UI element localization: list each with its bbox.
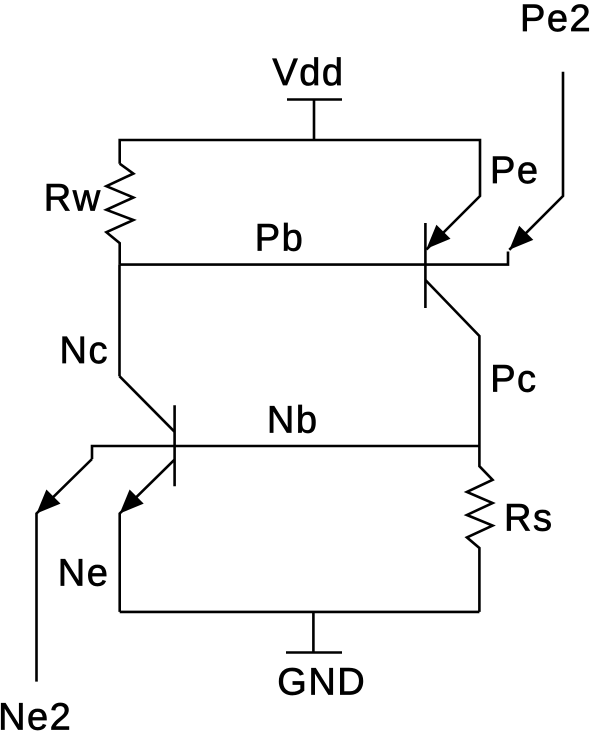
transistor NPN base bar — [173, 405, 176, 486]
svg-text:Rw: Rw — [44, 178, 102, 220]
wire Nc — [118, 265, 121, 377]
svg-text:Nc: Nc — [60, 330, 109, 372]
power symbol Vdd — [287, 100, 342, 141]
svg-text:GND: GND — [277, 662, 366, 704]
svg-text:Ne2: Ne2 — [0, 697, 72, 734]
svg-text:Pe: Pe — [490, 150, 539, 192]
wire node Nb horizontal — [92, 446, 479, 459]
transistor NPN emitter diagonal (Ne) — [120, 460, 175, 612]
wire GND rail — [120, 611, 480, 614]
wire top Vdd rail — [120, 140, 480, 250]
svg-text:Pb: Pb — [255, 218, 304, 260]
svg-text:Pe2: Pe2 — [520, 0, 590, 40]
PNP emitter 2 arrowhead (Pe2) — [509, 226, 533, 250]
NPN emitter 1 arrowhead (Ne) — [120, 490, 144, 514]
transistor NPN collector diagonal — [120, 376, 175, 432]
svg-text:Pc: Pc — [490, 359, 537, 401]
wire Ne2 diagonal — [37, 459, 93, 682]
svg-text:Nb: Nb — [267, 399, 319, 441]
svg-text:Vdd: Vdd — [272, 52, 344, 94]
transistor PNP base bar — [424, 223, 427, 308]
svg-text:Ne: Ne — [58, 552, 110, 594]
resistor Rw — [106, 164, 133, 265]
transistor PNP collector diagonal (Pc) — [425, 280, 479, 446]
wire Pe2 lead — [509, 72, 563, 250]
NPN emitter 2 arrowhead (Ne2) — [37, 490, 61, 514]
wire node Pb horizontal — [120, 252, 508, 265]
svg-text:Rs: Rs — [504, 498, 553, 540]
resistor Rs — [467, 446, 493, 612]
PNP emitter 1 arrowhead (Pe) — [427, 225, 451, 249]
ground symbol GND — [286, 612, 342, 653]
